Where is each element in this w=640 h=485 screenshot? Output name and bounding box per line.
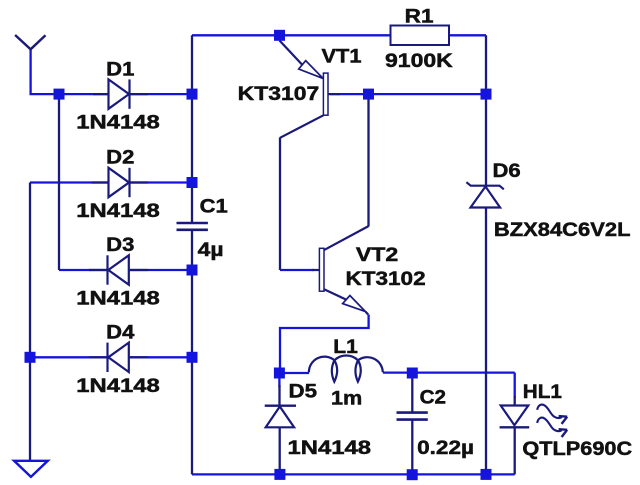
- svg-text:0.22µ: 0.22µ: [417, 437, 474, 459]
- capacitor C2: [397, 413, 428, 420]
- transistor VT1: [280, 41, 341, 138]
- node D5 top: [274, 368, 285, 379]
- svg-text:R1: R1: [405, 5, 434, 27]
- node D5 bottom: [274, 469, 285, 480]
- HL1 light arrows: [537, 405, 567, 437]
- wire VT2 collector vertical: [367, 94, 369, 226]
- node D4 left: [25, 352, 36, 363]
- wire VT2 base: [280, 269, 314, 271]
- node D1 right: [187, 89, 198, 100]
- wire D4 row: [30, 356, 192, 358]
- svg-text:1N4148: 1N4148: [76, 375, 160, 397]
- svg-text:QTLP690C: QTLP690C: [522, 438, 632, 460]
- svg-text:VT1: VT1: [322, 46, 362, 68]
- svg-text:4µ: 4µ: [198, 239, 224, 261]
- svg-text:VT2: VT2: [356, 244, 399, 266]
- svg-text:D2: D2: [106, 147, 134, 169]
- wire VT2 emitter net: [280, 315, 369, 374]
- node D2 right: [187, 177, 198, 188]
- node D3 right: [187, 265, 198, 276]
- node VT1 emitter top: [274, 30, 285, 41]
- node VT1 base mid: [363, 89, 374, 100]
- diode D4: [89, 343, 148, 372]
- wire HL1 leads: [514, 396, 516, 474]
- inductor L1: [309, 355, 383, 381]
- wire D3 row: [59, 269, 192, 271]
- node C2 top: [407, 368, 418, 379]
- capacitor C1: [177, 223, 208, 230]
- wire right rail: [485, 35, 487, 474]
- node D4 right: [187, 352, 198, 363]
- wire D2 row: [30, 181, 192, 183]
- wire L1 row left: [279, 372, 309, 374]
- resistor R1: [391, 26, 450, 46]
- svg-text:L1: L1: [333, 336, 358, 358]
- antenna: [15, 35, 45, 49]
- svg-text:1N4148: 1N4148: [76, 200, 160, 222]
- node base right rail: [481, 89, 492, 100]
- wire D5 top stub: [278, 373, 280, 387]
- node rail bottom: [481, 469, 492, 480]
- svg-text:9100K: 9100K: [385, 50, 453, 72]
- wire antenna lead: [31, 48, 59, 94]
- svg-text:1N4148: 1N4148: [288, 437, 372, 459]
- transistor VT2: [312, 226, 369, 314]
- svg-text:C1: C1: [200, 196, 228, 218]
- diode D1: [93, 79, 148, 108]
- wire HL1 drop: [514, 373, 516, 398]
- svg-text:KT3107: KT3107: [238, 83, 320, 105]
- svg-text:D1: D1: [106, 58, 134, 80]
- wire D1 row: [59, 93, 192, 95]
- svg-text:1N4148: 1N4148: [76, 287, 160, 309]
- node D1 left: [54, 89, 65, 100]
- svg-text:D5: D5: [289, 381, 318, 403]
- node squares: [25, 30, 492, 480]
- diode D3: [89, 255, 148, 284]
- wire VT1 base to right rail: [330, 93, 486, 95]
- wire x192 vertical: [191, 35, 193, 474]
- LED HL1: [500, 406, 530, 428]
- svg-text:KT3102: KT3102: [346, 268, 426, 290]
- wire VT1 collector vertical: [279, 138, 281, 271]
- svg-text:C2: C2: [420, 386, 447, 408]
- zener D6: [466, 182, 503, 207]
- diode D5: [265, 406, 296, 428]
- wire D5 upper lead: [278, 385, 280, 406]
- svg-text:1N4148: 1N4148: [76, 111, 160, 133]
- ground: [14, 461, 48, 477]
- svg-text:D3: D3: [106, 234, 134, 256]
- svg-text:BZX84C6V2L: BZX84C6V2L: [494, 219, 631, 241]
- wire top rail: [192, 34, 486, 36]
- svg-text:D4: D4: [106, 322, 134, 344]
- node C2 bottom: [407, 469, 418, 480]
- wire D5 lower lead: [279, 406, 281, 474]
- svg-text:D6: D6: [493, 160, 521, 182]
- wire C2 leads: [411, 373, 413, 474]
- wire bottom rail: [192, 473, 515, 475]
- diode D2: [92, 168, 149, 197]
- wire L1 row right to HL1: [383, 371, 515, 373]
- wire x59 vertical: [58, 94, 60, 270]
- svg-text:1m: 1m: [331, 387, 362, 409]
- svg-text:HL1: HL1: [523, 381, 562, 403]
- wire left rail: [29, 183, 31, 461]
